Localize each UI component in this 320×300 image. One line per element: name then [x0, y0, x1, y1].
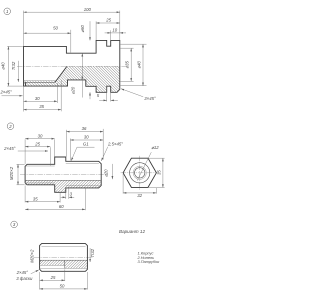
- svg-text:⌀20: ⌀20: [104, 169, 109, 177]
- svg-text:⌀40: ⌀40: [1, 62, 6, 70]
- svg-text:3: 3: [70, 192, 73, 197]
- svg-text:M20×2: M20×2: [30, 249, 35, 263]
- svg-text:3.Патрубок: 3.Патрубок: [138, 259, 160, 264]
- svg-text:2: 2: [8, 124, 12, 129]
- svg-text:⌀12: ⌀12: [151, 145, 159, 150]
- svg-text:30: 30: [35, 96, 40, 101]
- svg-text:⌀35: ⌀35: [124, 61, 129, 69]
- svg-text:2×45°: 2×45°: [3, 146, 16, 151]
- svg-text:30: 30: [84, 134, 89, 139]
- svg-text:⌀20: ⌀20: [70, 86, 75, 94]
- svg-text:Вариант 12: Вариант 12: [119, 229, 145, 234]
- svg-text:25: 25: [105, 18, 111, 23]
- svg-text:M20×2: M20×2: [9, 166, 14, 180]
- svg-text:2,5×45°: 2,5×45°: [107, 141, 123, 146]
- svg-text:50: 50: [53, 25, 58, 30]
- svg-text:5: 5: [97, 93, 100, 98]
- svg-text:35: 35: [157, 170, 162, 175]
- svg-text:35: 35: [39, 104, 44, 109]
- svg-text:50: 50: [60, 284, 65, 289]
- svg-text:25: 25: [34, 141, 40, 146]
- svg-text:3 фаски: 3 фаски: [16, 276, 33, 281]
- svg-text:25: 25: [50, 275, 56, 280]
- svg-text:⌀50: ⌀50: [80, 25, 85, 33]
- svg-text:3×45°: 3×45°: [144, 96, 156, 101]
- svg-text:36: 36: [82, 126, 87, 131]
- svg-text:⌀40: ⌀40: [136, 61, 141, 69]
- svg-text:G1: G1: [83, 142, 89, 147]
- svg-text:30: 30: [38, 133, 43, 138]
- svg-text:Tr32: Tr32: [90, 248, 95, 257]
- svg-text:3: 3: [13, 222, 16, 227]
- svg-text:35: 35: [33, 196, 38, 201]
- svg-text:1: 1: [6, 9, 9, 14]
- svg-text:10: 10: [112, 28, 117, 33]
- svg-text:100: 100: [84, 7, 92, 12]
- svg-text:60: 60: [59, 204, 64, 209]
- svg-text:32: 32: [137, 193, 142, 198]
- svg-text:Tr32: Tr32: [11, 61, 16, 70]
- svg-text:2×45°: 2×45°: [16, 270, 29, 275]
- svg-text:2×45°: 2×45°: [0, 90, 12, 95]
